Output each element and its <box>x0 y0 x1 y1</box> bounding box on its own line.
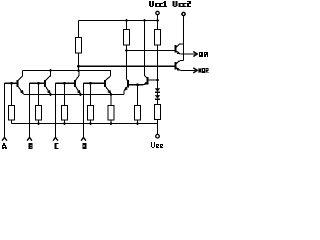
resistor RC (input C pulldown) <box>64 83 66 105</box>
node dot W4 at Q3 <box>79 93 82 96</box>
resistor R2 (OR-side collector load) <box>126 21 128 30</box>
label Vee <box>151 142 163 148</box>
wire diode to R7 <box>157 99 159 104</box>
node dot W1 at R2 <box>125 49 128 52</box>
label Vcc2 <box>173 1 192 7</box>
transistor Q8 (NOR emitter follower) <box>176 61 184 71</box>
node dot W2 at R1 <box>77 65 80 68</box>
wire diode link <box>157 92 159 95</box>
terminal Vee <box>157 124 159 135</box>
label Vcc1 <box>149 1 167 7</box>
label OR <box>199 52 208 57</box>
transistor Q5 (reference, left-facing) <box>124 79 144 95</box>
label D <box>83 143 87 149</box>
label NOR <box>199 68 209 73</box>
wire bias chain vertical <box>157 45 159 88</box>
node dot W3 at Q2 collector <box>49 69 52 72</box>
label B <box>29 143 33 149</box>
node dot W5 RC <box>63 122 66 125</box>
wire V1 Vcc to Q6 collector <box>144 21 146 76</box>
wire W2 NOR node to Q8 base <box>79 65 175 67</box>
wire Vcc2 rail <box>183 16 185 61</box>
wire W3 input collector bus <box>23 71 111 77</box>
resistor R3 (bias divider top) <box>157 21 159 30</box>
input wire C <box>55 83 57 138</box>
node dot RD top <box>89 82 92 85</box>
transistor Q6 (bias follower, left-facing) <box>143 76 157 85</box>
input wire B <box>29 83 31 138</box>
node dot W5 RD <box>89 122 92 125</box>
node dot W4 at Q4/RE <box>110 93 113 96</box>
node dot W5 RE <box>110 122 113 125</box>
terminal arrow C <box>53 137 58 140</box>
node dot Vcc1 bus <box>156 19 159 22</box>
terminal arrow D <box>81 137 86 140</box>
wire Vcc1 stub <box>157 15 159 21</box>
resistor RB (input B pulldown) <box>38 83 40 105</box>
transistor Q7 (OR emitter follower) <box>176 44 184 54</box>
node dot Q5 base / R6 <box>136 83 139 86</box>
resistor R1 (NOR-side collector load) <box>78 21 80 38</box>
wire W4 common emitter bus <box>24 94 125 96</box>
transistor Q1 (input A) <box>5 71 24 95</box>
resistor RE (emitter resistor) <box>110 95 112 106</box>
label C <box>55 143 59 149</box>
terminal Vcc1 (circle) <box>156 11 159 14</box>
wire OR output <box>180 53 195 55</box>
terminal Vcc2 (filled circle) <box>182 12 185 15</box>
node dot RB top <box>37 82 40 85</box>
node dot W5 RB <box>37 122 40 125</box>
node dot RC top <box>63 82 66 85</box>
node dot RA top <box>10 82 13 85</box>
diode D2 <box>155 95 160 99</box>
node dot W4 at Q2 <box>49 93 52 96</box>
wire node P drop to Q5 collector <box>126 51 128 80</box>
wire W1 OR-collector node to Q7 base <box>127 50 175 52</box>
transistor Q2 (input B) <box>30 71 51 95</box>
wire W5 bottom bus <box>12 123 158 125</box>
input wire D <box>83 83 85 138</box>
node dot R2 top <box>125 19 128 22</box>
node dot V1 top <box>143 19 146 22</box>
node dot W3 at R1 <box>77 69 80 72</box>
transistor Q4 (input D) <box>84 76 112 94</box>
arrow NOR output <box>193 68 197 73</box>
label A <box>2 143 7 149</box>
resistor RA (input A pulldown) <box>11 83 13 105</box>
terminal arrow B <box>27 137 32 140</box>
arrow OR output <box>193 52 197 57</box>
input wire A <box>4 83 6 138</box>
resistor R7 (bias divider bottom) <box>155 105 161 120</box>
wire top bus (Vcc1 node) <box>79 20 158 22</box>
terminal arrow A <box>2 137 7 140</box>
node dot W5 R6 <box>136 122 139 125</box>
resistor R6 (Vbb pulldown) <box>137 85 139 106</box>
transistor Q3 (input C) <box>56 71 81 95</box>
wire NOR output <box>180 69 195 71</box>
diode D1 <box>155 88 160 92</box>
node dot Q6 base tap <box>156 79 159 82</box>
resistor RD (input D pulldown) <box>90 83 92 105</box>
